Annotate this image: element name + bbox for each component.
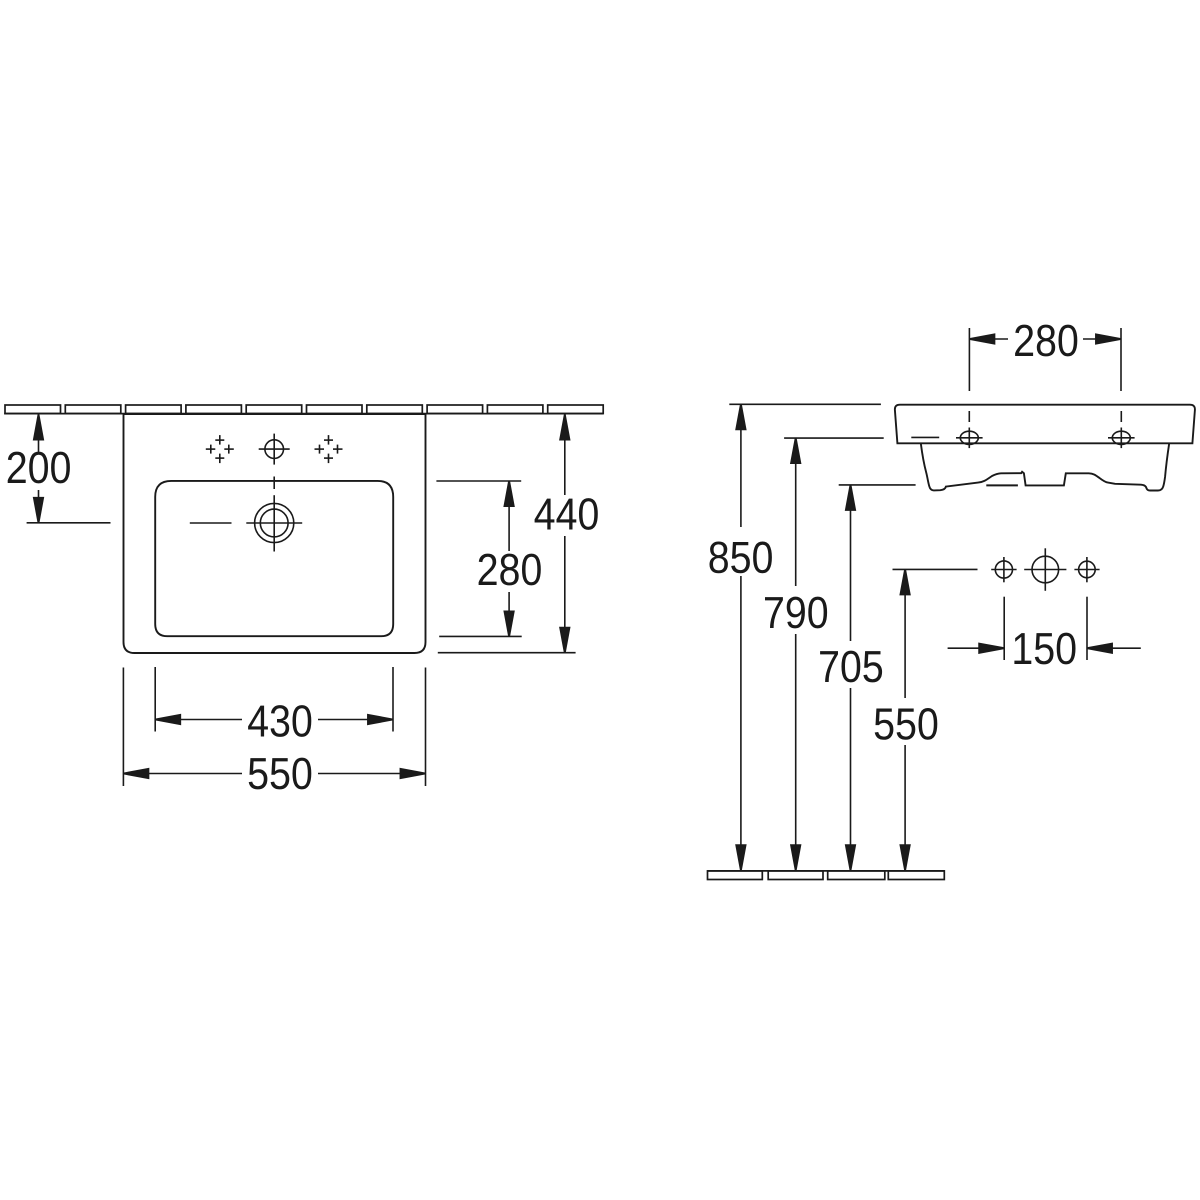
centerline dash left of holes — [911, 436, 939, 438]
basin rim (front view) — [895, 405, 1195, 444]
dim text 790 — [765, 597, 827, 629]
dim 280 (hole spacing, front) — [969, 328, 1121, 391]
dim 430 (inner width) — [155, 667, 393, 732]
drain hole middle (front) — [1024, 548, 1066, 591]
dim 280 (left view inner depth) — [436, 481, 521, 636]
dim 440 (left view height) — [438, 415, 576, 653]
dim text 430 — [248, 705, 311, 737]
wall hatch top-left view — [4, 405, 603, 414]
dim 150 (supply spacing) — [948, 597, 1141, 660]
basin inner bowl rounded rect (plan view) — [155, 481, 393, 636]
mounting hole right (front) — [1108, 411, 1135, 448]
dim text 850 — [710, 542, 772, 574]
supply hole right (front) — [1074, 557, 1099, 582]
dim text 440 — [535, 498, 598, 530]
dim 550 (supply height) — [893, 569, 978, 870]
mounting hole left (front) — [956, 411, 983, 448]
dim text 280 — [479, 554, 541, 586]
overflow drain hole (plan) — [246, 495, 302, 551]
dim 200 (wall to hole centre) — [27, 415, 111, 523]
dim text 200 — [8, 452, 70, 484]
dim 550 (outer width) — [123, 668, 425, 787]
faucet hole marker left (plan) — [206, 435, 234, 463]
dim 705 (bowl bottom height) — [839, 485, 916, 870]
bowl underside profile (front view) — [921, 443, 1169, 490]
dim text 550 — [875, 708, 938, 740]
faucet hole middle (plan) — [259, 434, 290, 465]
dim 790 (hole height) — [784, 438, 884, 870]
dim text 280 — [1015, 325, 1077, 357]
supply hole left (front) — [991, 557, 1016, 582]
dim text 705 — [820, 651, 882, 683]
dim text 550 — [249, 758, 312, 790]
hidden recess edge line — [986, 484, 1018, 486]
dim text 150 — [1014, 633, 1075, 665]
faucet hole marker right (plan) — [315, 435, 343, 463]
floor hatch (front view) — [708, 871, 945, 880]
centerline dash crossing inner rect top — [273, 477, 275, 490]
dim 850 (rim height) — [729, 404, 881, 870]
centerline dash left of drain hole — [190, 522, 232, 524]
basin outer rect (plan view) — [124, 414, 426, 653]
